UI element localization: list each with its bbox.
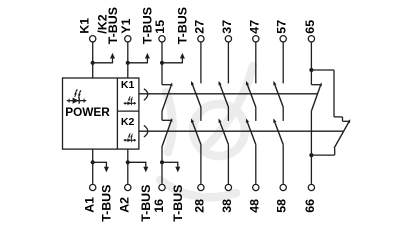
svg-text:Y1: Y1 [119, 18, 133, 33]
svg-text:16: 16 [152, 199, 166, 213]
svg-text:T-BUS: T-BUS [176, 7, 190, 44]
svg-text:47: 47 [247, 20, 261, 34]
svg-text:48: 48 [247, 199, 261, 213]
svg-text:T-BUS: T-BUS [141, 7, 155, 44]
svg-text:K1: K1 [121, 79, 135, 91]
svg-text:27: 27 [192, 20, 206, 34]
svg-text:38: 38 [220, 199, 234, 213]
svg-text:28: 28 [192, 199, 206, 213]
svg-text:T-BUS: T-BUS [171, 185, 185, 222]
svg-text:K1: K1 [77, 18, 91, 34]
svg-text:A2: A2 [118, 197, 132, 213]
svg-text:T-BUS: T-BUS [106, 7, 120, 44]
svg-text:POWER: POWER [65, 105, 110, 119]
svg-text:A1: A1 [83, 197, 97, 213]
svg-text:57: 57 [275, 20, 289, 34]
svg-text:T-BUS: T-BUS [139, 185, 153, 222]
svg-text:K2: K2 [121, 116, 135, 128]
svg-text:66: 66 [303, 199, 317, 213]
svg-text:15: 15 [153, 20, 167, 34]
svg-text:37: 37 [220, 20, 234, 34]
svg-text:58: 58 [275, 199, 289, 213]
svg-text:65: 65 [303, 20, 317, 34]
svg-text:T-BUS: T-BUS [100, 185, 114, 222]
